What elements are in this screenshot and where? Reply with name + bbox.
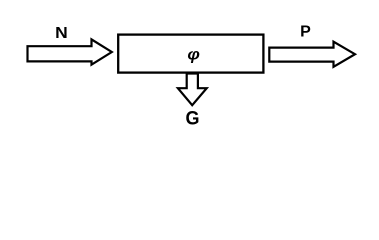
svg-text:P: P bbox=[300, 23, 311, 40]
svg-text:G: G bbox=[186, 108, 200, 129]
block arrow G (loss, pointing down) bbox=[178, 74, 207, 106]
svg-text:φ: φ bbox=[187, 47, 200, 64]
block arrow P (output, pointing right) bbox=[269, 42, 355, 67]
block arrow N (input, pointing right) bbox=[28, 39, 112, 64]
block phi (rectangle) bbox=[118, 35, 263, 73]
block diagram: input N, block phi, output P, loss G bbox=[0, 0, 379, 138]
svg-text:N: N bbox=[55, 25, 68, 42]
